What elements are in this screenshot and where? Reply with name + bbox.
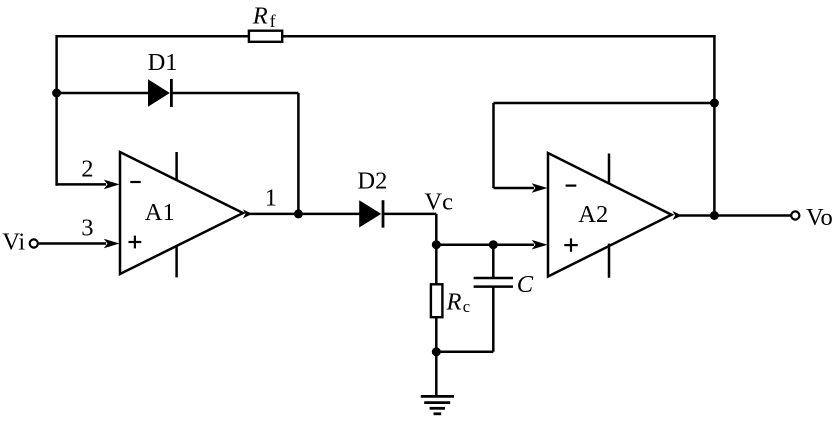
svg-text:Vc: Vc	[424, 189, 453, 216]
svg-text:D2: D2	[357, 168, 387, 195]
plus sign A2	[564, 238, 577, 251]
capacitor C1 (C)	[474, 278, 513, 287]
wire top feedback horizontal left of Rf	[57, 35, 249, 38]
node A2 output junction	[710, 211, 719, 220]
wire capacitor bottom horizontal	[436, 351, 493, 354]
node capacitor top junction	[489, 240, 498, 249]
node Rc bottom junction	[432, 347, 441, 356]
wire A2 output to Vo	[676, 214, 792, 217]
wire Vc vertical drop	[435, 214, 438, 245]
wire capacitor top lead	[492, 245, 495, 278]
wire D1 right vertical down to A1 output	[297, 93, 300, 214]
arrow into A2 inverting input	[532, 183, 548, 193]
node junction left D1	[52, 89, 61, 98]
wire inverting input pin 2	[57, 183, 106, 186]
svg-text:1: 1	[265, 184, 277, 211]
svg-text:2: 2	[81, 156, 93, 183]
wire A1 output to D2	[246, 213, 360, 216]
arrow at A2 output apex	[673, 211, 682, 220]
svg-text:A2: A2	[578, 201, 608, 228]
terminal Vi	[30, 239, 38, 247]
wire left vertical	[55, 35, 58, 186]
diode D1	[148, 79, 171, 107]
svg-text:C: C	[517, 271, 534, 298]
svg-text:Vo: Vo	[806, 204, 833, 231]
wire A2 feedback horizontal	[494, 102, 716, 105]
svg-text:3: 3	[81, 214, 93, 241]
terminal Vo	[791, 211, 799, 219]
resistor R2 (Rc)	[431, 284, 443, 317]
minus sign A1	[130, 181, 140, 183]
node A1 output junction	[294, 209, 303, 218]
arrow into pin 3	[104, 239, 120, 249]
wire Rc bottom lead	[435, 317, 438, 352]
svg-text:D1: D1	[148, 49, 178, 76]
wire D2 cathode to Vc corner	[383, 213, 437, 216]
minus sign A2	[566, 185, 577, 187]
wire Rc top lead	[435, 245, 438, 285]
node Vc junction	[432, 240, 441, 249]
node A2 feedback junction	[710, 99, 719, 108]
plus sign A1	[129, 236, 142, 249]
arrow into A2 plus input	[532, 240, 548, 250]
op-amp U2 (A2)	[548, 153, 672, 278]
wire A2 feedback vertical	[492, 103, 495, 188]
svg-text:f: f	[270, 11, 276, 31]
resistor R1 (Rf)	[249, 31, 282, 42]
wire into A2 inverting input	[494, 187, 535, 190]
svg-text:R: R	[446, 289, 462, 316]
arrow into pin 2	[104, 180, 120, 190]
label Rf	[252, 2, 276, 31]
wire ground lead	[435, 352, 438, 397]
wire right vertical from top to output	[713, 35, 716, 216]
svg-text:c: c	[463, 297, 470, 316]
svg-text:Vi: Vi	[2, 229, 25, 256]
arrow at A1 output apex	[243, 209, 252, 218]
wire D1 cathode horizontal	[171, 92, 298, 95]
label Rc	[446, 289, 471, 316]
ground	[421, 396, 454, 413]
wire non-inverting input pin 3	[38, 242, 106, 245]
wire D1 anode horizontal	[57, 92, 149, 95]
diode D2	[359, 200, 383, 227]
svg-text:R: R	[252, 2, 268, 29]
op-amp U1 (A1)	[120, 152, 243, 277]
svg-text:A1: A1	[145, 199, 175, 226]
wire top feedback horizontal right of Rf	[282, 35, 716, 38]
wire node row to A2 plus input	[436, 243, 534, 246]
wire capacitor bottom lead	[492, 287, 495, 352]
